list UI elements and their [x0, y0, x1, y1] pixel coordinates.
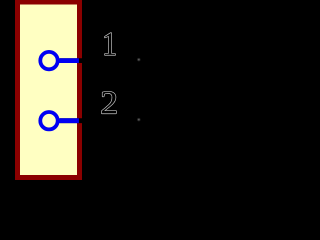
connector body J1: [18, 2, 80, 178]
pin 1 outer stub (black over border): [60, 58, 138, 63]
pin 2 line: [57, 118, 79, 123]
pin 2 tip speck: [137, 118, 140, 121]
pin 1 line: [57, 58, 79, 63]
pin 2 circle: [40, 112, 57, 129]
pin 2 outer stub (black over border): [60, 118, 138, 123]
pin 1 tip speck: [137, 58, 140, 61]
pin number 1: [105, 33, 115, 55]
pin 1 circle: [40, 52, 57, 69]
pin number 2: [102, 92, 116, 114]
